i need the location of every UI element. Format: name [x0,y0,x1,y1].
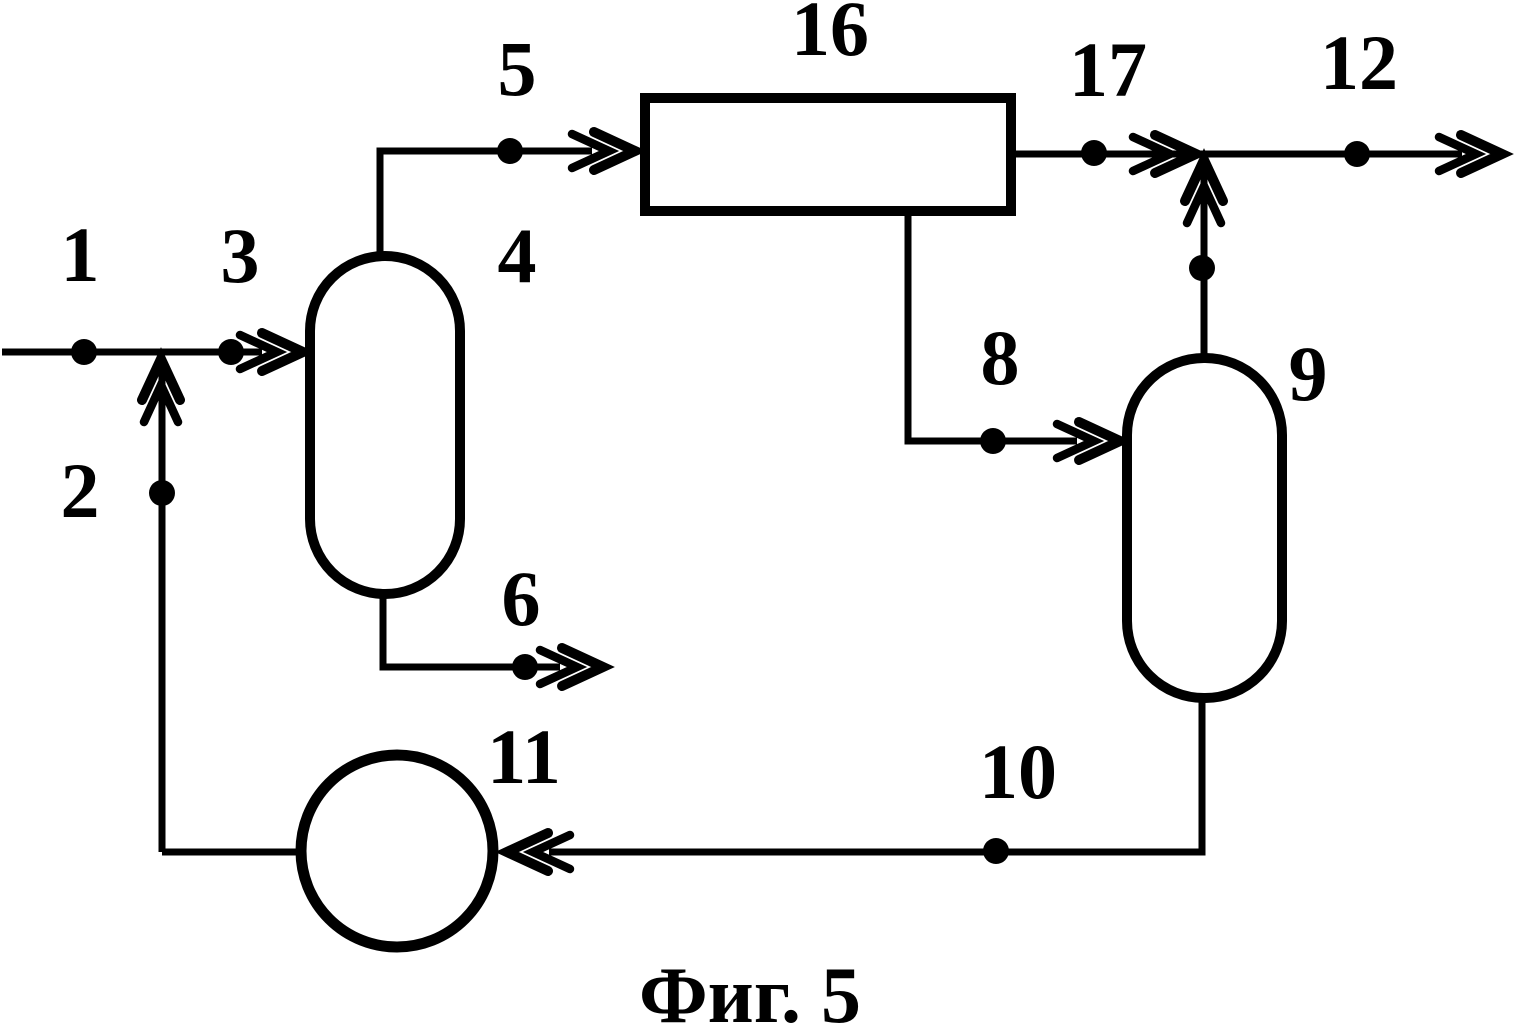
svg-text:5: 5 [498,25,537,112]
svg-text:1: 1 [61,211,100,298]
svg-text:9: 9 [1289,330,1328,417]
node dot stream 10 [983,838,1009,864]
vessel 3 (capsule separator) [310,256,460,594]
svg-text:10: 10 [979,728,1057,815]
wire stream 17/12 product line [1016,151,1462,158]
svg-text:17: 17 [1069,26,1147,113]
svg-text:3: 3 [221,212,260,299]
arrow stream 10 into pump 11 [507,833,570,871]
node dot stream 5 [497,138,523,164]
node dot stream 1 [71,339,97,365]
wire pump 11 outlet to riser 2 [162,849,297,856]
arrow stream 5 into unit 16 [572,132,635,170]
svg-text:16: 16 [791,0,869,72]
svg-text:Фиг. 5: Фиг. 5 [639,952,861,1035]
node dot stream 2 [149,480,175,506]
wire stream 6 from vessel 3 bottom [383,596,560,667]
svg-text:6: 6 [502,555,541,642]
wire stream 1 horizontal feed line [2,349,262,356]
node dot stream 3 [218,339,244,365]
unit 16 rectangle [645,98,1011,211]
node dot stream 17 [1081,140,1107,166]
node dot stream 12 [1344,141,1370,167]
svg-text:2: 2 [61,447,100,534]
arrow into vessel 3 [240,333,303,371]
node dot riser [1189,255,1215,281]
node dot stream 6 [512,654,538,680]
arrow riser up into junction [1185,160,1223,223]
arrow stream 12 outlet [1439,135,1502,173]
wire vessel 9 overhead riser to junction [1201,163,1208,355]
node dot stream 8 [980,428,1006,454]
wire stream 2 recycle riser [159,362,166,852]
svg-text:12: 12 [1320,19,1398,106]
arrow stream 8 into vessel 9 [1057,422,1120,460]
arrow stream 17 into junction [1133,135,1196,173]
wire stream 5 from vessel 3 top to unit 16 [380,151,592,253]
arrow stream 6 outlet [540,648,603,686]
svg-text:8: 8 [981,314,1020,401]
svg-text:4: 4 [498,212,537,299]
wire stream 8 from unit 16 bottom to vessel 9 [908,213,1077,441]
svg-text:11: 11 [487,713,561,800]
pump 11 circle [301,755,493,947]
wire stream 10 from vessel 9 bottom to pump 11 [549,700,1202,852]
vessel 9 (capsule separator) [1127,358,1282,698]
arrow stream 2 up into line 1 [142,359,180,422]
